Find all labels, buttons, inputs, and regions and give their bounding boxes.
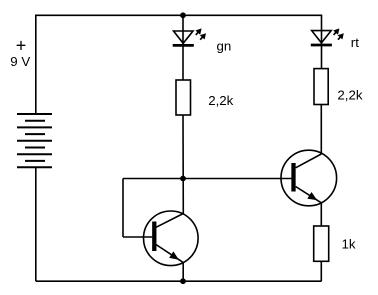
- LED D2 light arrow 2: [338, 33, 344, 40]
- LED D1 light arrow 1: [195, 28, 201, 35]
- wire left side upper: [35, 15, 37, 115]
- svg-text:1k: 1k: [342, 237, 356, 252]
- svg-text:2,2k: 2,2k: [337, 88, 362, 103]
- transistor Q1: [144, 211, 199, 266]
- wire base rail to Q2: [123, 178, 292, 180]
- node bottom junction: [180, 278, 186, 284]
- node base junction: [180, 176, 186, 182]
- wire feedback loop vertical: [122, 179, 124, 238]
- wire LED D1 branch: [182, 15, 184, 80]
- LED D2 red triangle: [312, 31, 332, 43]
- resistor R2 2,2k: [314, 69, 328, 105]
- LED D1 light arrow 2: [200, 33, 206, 40]
- wire bottom rail: [36, 280, 322, 282]
- wire Q1 base lead: [123, 236, 152, 238]
- LED D2 cathode bar: [311, 44, 332, 47]
- wire Q1 emitter down: [182, 263, 184, 282]
- LED D1 cathode bar: [173, 44, 194, 47]
- node top junction: [180, 12, 186, 18]
- wire R3 to bottom rail: [320, 261, 322, 281]
- svg-text:2,2k: 2,2k: [208, 93, 233, 108]
- LED D1 green triangle: [174, 31, 194, 43]
- battery B1 9V: [17, 114, 52, 167]
- svg-text:gn: gn: [217, 38, 232, 53]
- wire Q2 emitter down: [320, 203, 322, 226]
- wire top rail: [36, 14, 322, 16]
- wire Q2 collector up: [320, 105, 322, 155]
- wire R1 to Q1 collector: [182, 115, 184, 214]
- svg-text:rt: rt: [351, 35, 359, 50]
- wire left side lower: [35, 167, 37, 281]
- resistor R3 1k: [314, 226, 329, 261]
- svg-text:+: +: [16, 36, 27, 56]
- wire top rail to LED D2: [321, 15, 323, 69]
- resistor R1 2,2k: [176, 80, 191, 115]
- svg-text:9 V: 9 V: [10, 54, 30, 69]
- transistor Q2: [281, 150, 337, 206]
- LED D2 light arrow 1: [333, 28, 339, 35]
